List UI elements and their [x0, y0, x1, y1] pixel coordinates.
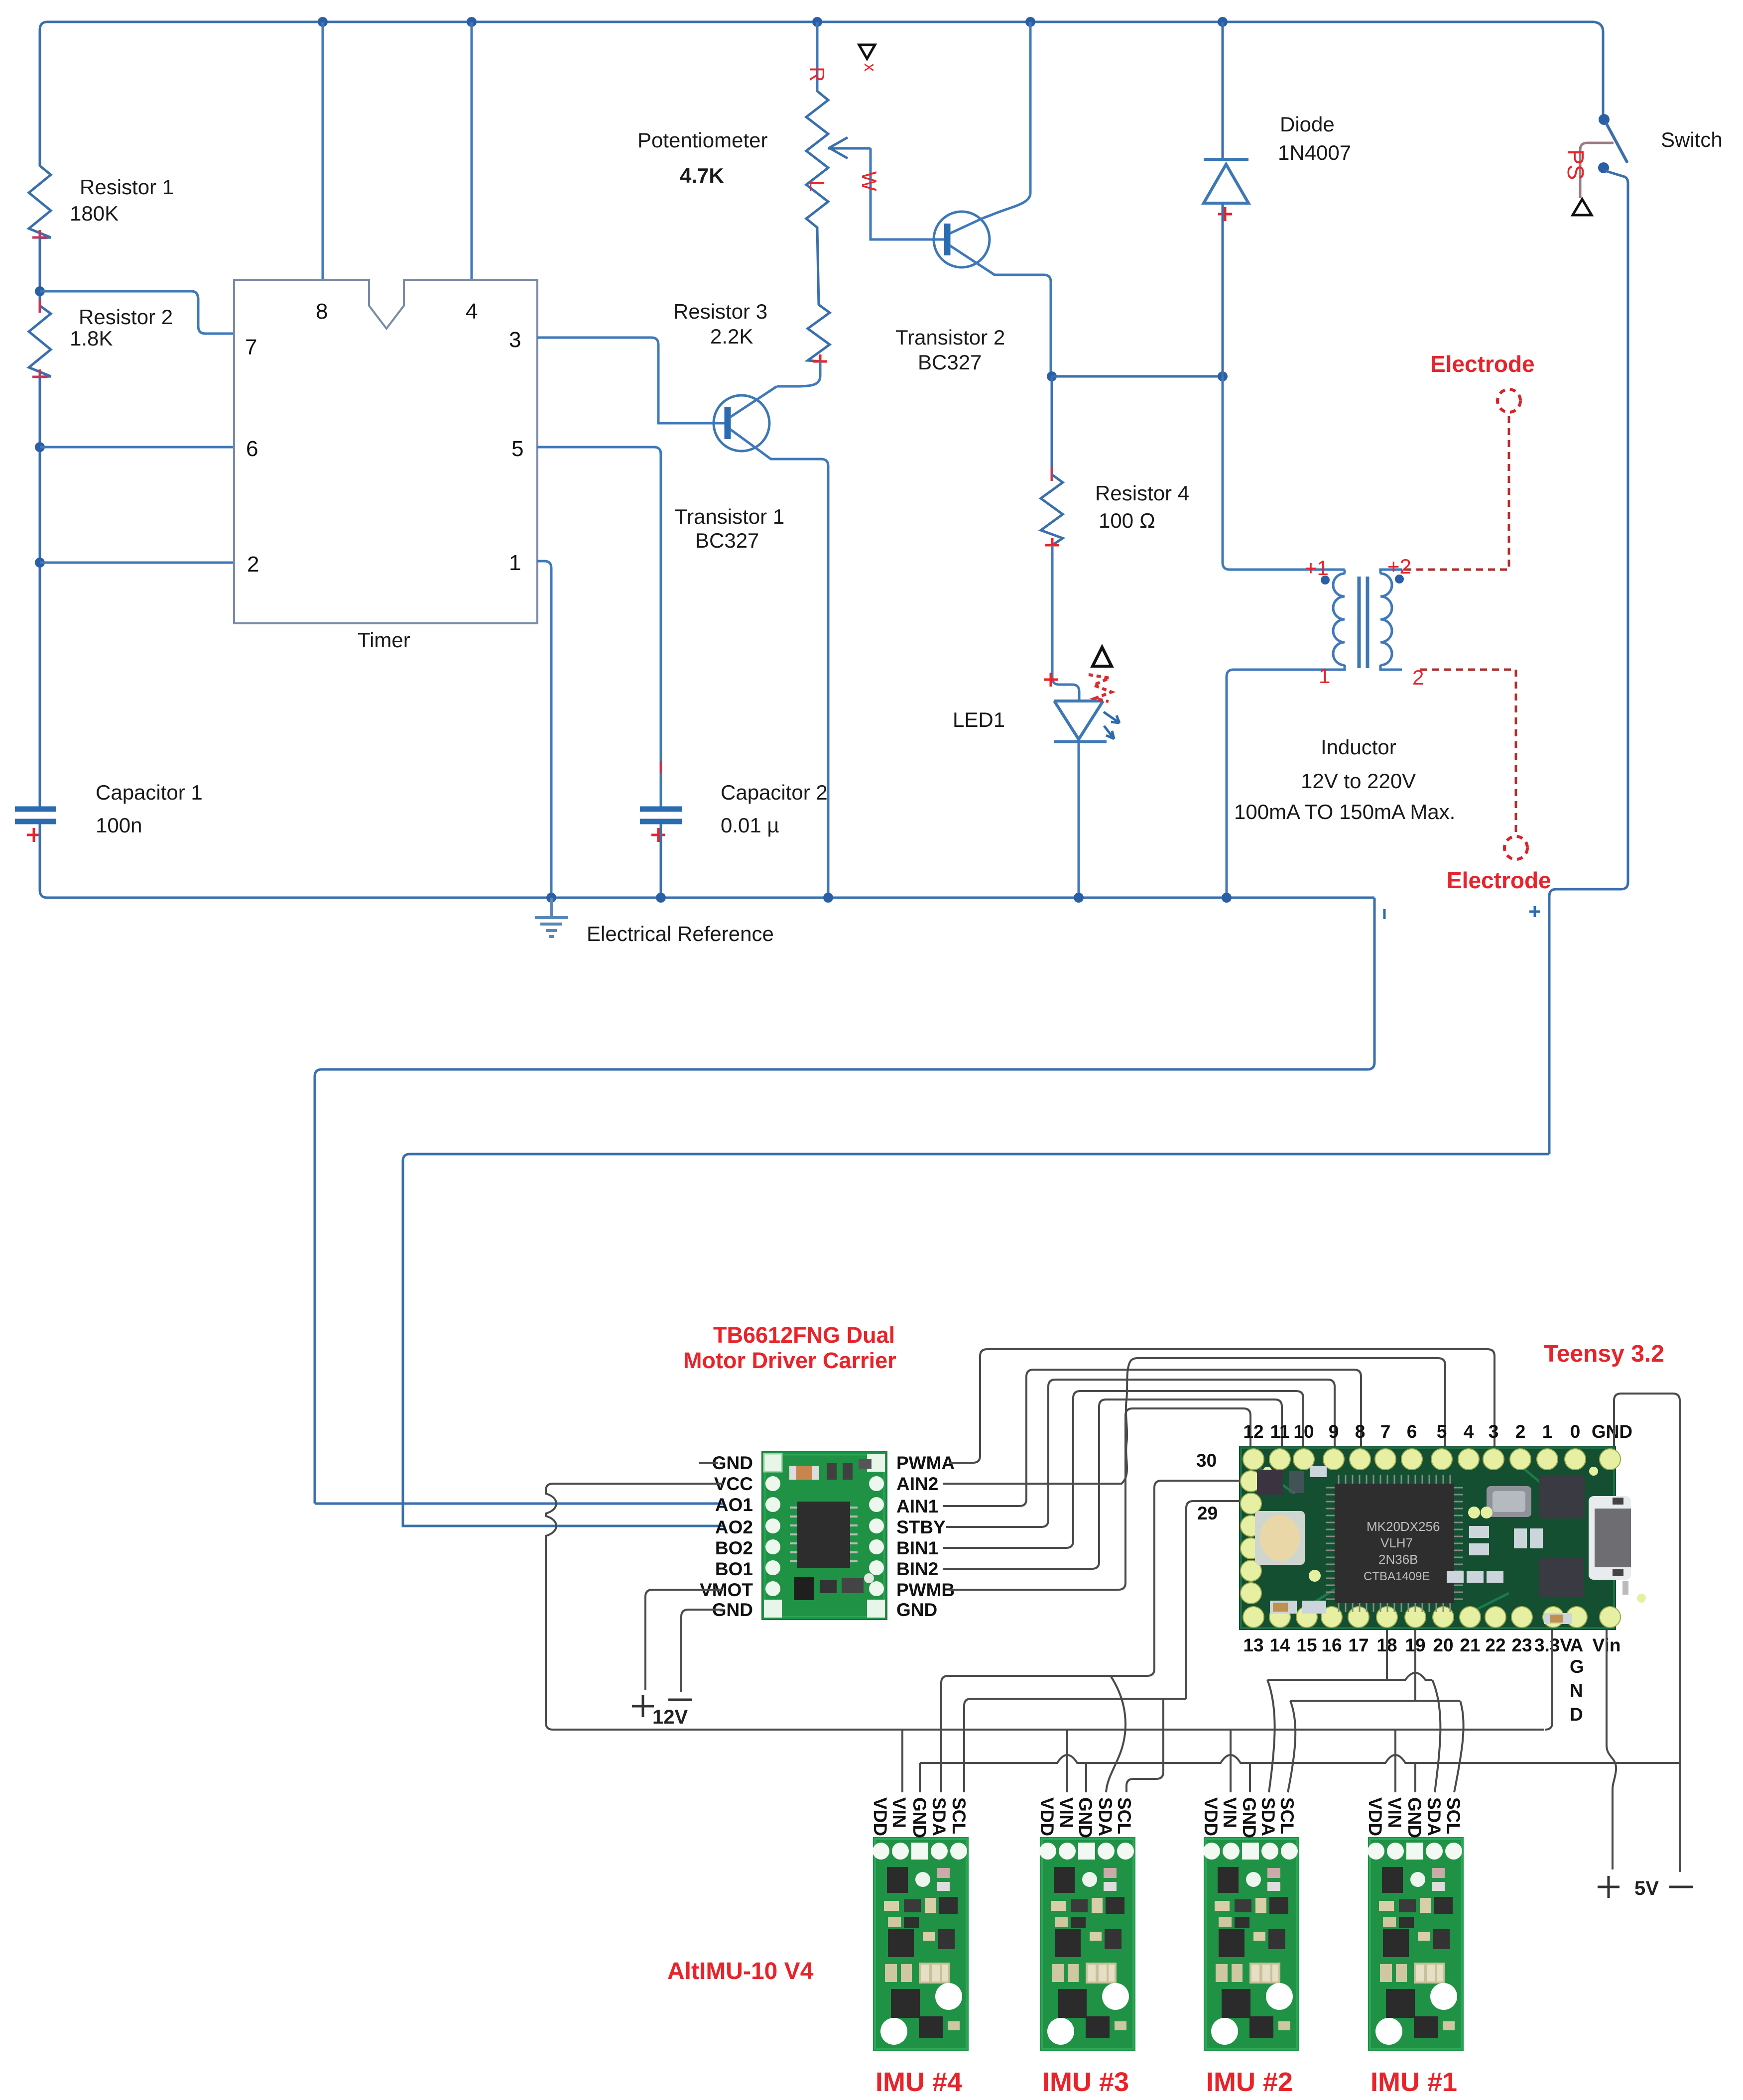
wire GND tap IMU2	[1249, 1763, 1251, 1792]
wire pin29 to SCL line (IMU 3-4)	[964, 1501, 1240, 1792]
svg-text:AltIMU-10 V4: AltIMU-10 V4	[667, 1958, 814, 1984]
svg-text:AIN1: AIN1	[896, 1496, 938, 1517]
transistor Q1 base bar	[725, 407, 731, 439]
wire teensy 3.3V to VIN line	[1545, 1630, 1552, 1730]
wire bottom rail	[40, 890, 1374, 898]
svg-text:D: D	[1570, 1704, 1583, 1725]
svg-text:SDA: SDA	[1424, 1797, 1444, 1836]
wire SDA tap to IMU3	[1106, 1676, 1125, 1792]
transistor Q1 emitter line	[730, 386, 777, 417]
svg-text:2: 2	[1412, 666, 1424, 689]
resistor R2 1.8K zigzag	[29, 306, 51, 377]
svg-text:AIN2: AIN2	[896, 1474, 938, 1494]
wire BIN2 to teensy pin11	[943, 1400, 1282, 1569]
svg-text:8: 8	[316, 299, 328, 324]
svg-text:17: 17	[1348, 1635, 1369, 1655]
wire diode vertical bottom	[1222, 203, 1224, 376]
node diode plus	[1218, 207, 1232, 221]
svg-text:N: N	[1570, 1680, 1583, 1701]
svg-text:VDD: VDD	[1365, 1797, 1385, 1836]
svg-text:L: L	[805, 180, 829, 192]
svg-text:STBY: STBY	[896, 1517, 946, 1537]
resistor R4 100ohm zigzag	[1041, 474, 1063, 545]
wire left vertical (supply to R1)	[40, 22, 47, 166]
capacitor C2 plates	[640, 809, 682, 821]
svg-text:IMU #3: IMU #3	[1042, 2067, 1129, 2097]
node transformer terminal +1	[1321, 576, 1330, 584]
svg-text:Motor Driver Carrier: Motor Driver Carrier	[683, 1348, 896, 1373]
wire AIN2 to teensy pin5	[943, 1358, 1445, 1484]
svg-text:2: 2	[247, 552, 259, 577]
label teensy top pins	[1243, 1421, 1632, 1442]
svg-text:SCL: SCL	[1443, 1797, 1464, 1834]
wire top rail right corner down to switch	[1594, 22, 1603, 115]
Teensy left pad column	[1241, 1471, 1261, 1604]
label TB6612 left pins	[700, 1453, 753, 1620]
IMU 3 board	[1039, 1837, 1135, 2051]
svg-text:3: 3	[509, 328, 521, 352]
svg-text:12V: 12V	[652, 1706, 688, 1728]
svg-text:MK20DX256: MK20DX256	[1367, 1519, 1440, 1534]
svg-text:BO1: BO1	[715, 1559, 753, 1579]
transistor Q2 collector line	[950, 245, 1051, 376]
TB6612 corner pads	[764, 1454, 782, 1472]
svg-text:SDA: SDA	[1258, 1797, 1278, 1836]
wire GND tap IMU3	[1085, 1763, 1087, 1792]
battery 5V minus symbol	[1669, 1886, 1693, 1888]
wire teensy Vin to plus 5V	[1607, 1630, 1616, 1869]
svg-text:0: 0	[1570, 1421, 1581, 1442]
svg-text:PWMB: PWMB	[896, 1580, 955, 1600]
IMU 2 board	[1203, 1837, 1299, 2051]
svg-text:BO2: BO2	[715, 1538, 753, 1558]
potentiometer P1 zigzag	[806, 91, 828, 229]
Teensy 3.2 board U3	[1239, 1446, 1646, 1630]
svg-text:4: 4	[1464, 1421, 1474, 1442]
svg-text:15: 15	[1296, 1635, 1317, 1655]
wire pin 7 connection	[40, 291, 234, 334]
svg-text:1: 1	[509, 551, 521, 575]
wire PWMA to teensy pin3	[949, 1349, 1494, 1463]
resistor R1 180K zigzag	[29, 166, 51, 238]
svg-text:AO1: AO1	[715, 1495, 753, 1515]
svg-text:13: 13	[1243, 1635, 1263, 1655]
svg-text:Transistor 2: Transistor 2	[895, 326, 1005, 349]
IMU 4 board	[872, 1837, 969, 2051]
Teensy passives	[1270, 1466, 1572, 1624]
svg-text:G: G	[1570, 1656, 1584, 1677]
svg-text:BC327: BC327	[918, 350, 982, 374]
svg-text:3.3V: 3.3V	[1534, 1635, 1572, 1655]
wire SCL0 wavy to IMU2	[1288, 1701, 1295, 1792]
svg-text:Timer: Timer	[358, 628, 410, 652]
svg-text:21: 21	[1460, 1635, 1480, 1655]
Teensy pcb traces hint	[1260, 1469, 1554, 1613]
resistor R3 2.2K zigzag	[808, 305, 830, 361]
svg-text:Switch: Switch	[1661, 128, 1723, 151]
wire VCC to VIN distribution	[546, 1484, 1544, 1730]
wire diode vertical top	[1222, 22, 1224, 158]
LED emission arrows	[1104, 712, 1120, 739]
svg-text:11: 11	[1270, 1421, 1289, 1442]
svg-text:VDD: VDD	[1037, 1797, 1057, 1836]
wire LED to bottom rail	[1078, 742, 1080, 898]
node R3 bottom plus	[813, 354, 827, 368]
wire transformer secondary bottom stub	[1380, 665, 1402, 670]
svg-text:BIN2: BIN2	[896, 1559, 938, 1579]
svg-text:23: 23	[1511, 1635, 1532, 1655]
wire GND bottom to 12V minus	[681, 1610, 723, 1692]
svg-text:GND: GND	[1592, 1421, 1632, 1442]
battery 12V minus symbol	[668, 1699, 692, 1701]
svg-text:1N4007: 1N4007	[1278, 141, 1351, 164]
electrode top dashed circle	[1497, 389, 1520, 412]
svg-text:0.01 µ: 0.01 µ	[721, 814, 779, 837]
Teensy reset button	[1255, 1511, 1305, 1565]
Teensy chip bottomright	[1539, 1558, 1584, 1598]
node C2 plus	[651, 828, 665, 842]
wire GND tap IMU4	[919, 1763, 921, 1792]
electrode top dashed connection	[1404, 413, 1509, 570]
svg-text:CTBA1409E: CTBA1409E	[1364, 1570, 1430, 1583]
wire SDA0 wavy to IMU1	[1432, 1680, 1440, 1792]
node junction diode bottom	[1218, 371, 1228, 381]
svg-text:VIN: VIN	[889, 1797, 909, 1828]
svg-text:2.2K: 2.2K	[710, 325, 753, 348]
wire potentiometer top drop	[816, 22, 819, 92]
svg-text:8: 8	[1355, 1421, 1366, 1442]
wire R1 to R2	[39, 238, 41, 306]
node C1 plus	[27, 828, 41, 842]
node LED plus	[1044, 673, 1058, 687]
wire potentiometer to resistor R3	[817, 229, 819, 305]
svg-text:SDA: SDA	[1095, 1797, 1116, 1836]
svg-text:100mA TO 150mA Max.: 100mA TO 150mA Max.	[1234, 800, 1455, 823]
svg-text:30: 30	[1196, 1450, 1217, 1471]
Teensy chip topright	[1539, 1476, 1585, 1518]
resistor R4 100ohm wire top	[1051, 376, 1053, 474]
wire wiper to transistor Q2 base	[871, 148, 944, 239]
Teensy small dot pads	[1263, 1467, 1272, 1476]
node junction Q1 collector rail	[823, 893, 833, 903]
svg-text:SCL: SCL	[1114, 1797, 1134, 1834]
wire R2 down to capacitor C1	[39, 377, 41, 807]
wire VIN tap IMU2	[1230, 1730, 1232, 1792]
wire R3 to Q1 emitter	[777, 361, 820, 386]
timer U1 555 box	[234, 280, 537, 623]
label TB6612 right pins	[896, 1453, 955, 1620]
svg-text:PS: PS	[1563, 149, 1589, 180]
wire pin 6 connection	[40, 446, 234, 449]
Teensy small chip topleft	[1257, 1470, 1283, 1495]
svg-text:+2: +2	[1387, 555, 1411, 578]
svg-text:14: 14	[1269, 1635, 1290, 1655]
svg-text:GND: GND	[909, 1797, 930, 1838]
svg-text:6: 6	[1407, 1421, 1417, 1442]
svg-text:1: 1	[1319, 664, 1330, 688]
LED annotation triangle	[1093, 647, 1112, 666]
capacitor C1 plates	[15, 809, 56, 821]
svg-text:Resistor 4: Resistor 4	[1095, 481, 1189, 505]
wire C2 to bottom rail	[660, 824, 662, 898]
potentiometer wiper arrow	[828, 137, 871, 158]
svg-text:Transistor 1: Transistor 1	[675, 505, 784, 528]
wire teensy GND top to minus 5V	[1614, 1394, 1680, 1872]
ground electrical reference symbol	[535, 898, 568, 936]
TB6612 left pad column	[765, 1476, 780, 1596]
svg-text:100n: 100n	[96, 814, 142, 837]
node junction ground	[546, 893, 556, 903]
svg-text:IMU #2: IMU #2	[1206, 2067, 1293, 2097]
node transformer terminal +2	[1395, 575, 1404, 583]
svg-text:VLH7: VLH7	[1380, 1535, 1413, 1550]
node junction pin7 branch	[35, 286, 45, 296]
wire C1 to bottom rail	[39, 824, 41, 890]
Teensy bottom pad row	[1243, 1607, 1620, 1628]
svg-text:LED1: LED1	[953, 708, 1005, 731]
svg-text:10: 10	[1293, 1421, 1314, 1442]
wire pin 3 connection	[537, 338, 725, 423]
svg-text:4.7K: 4.7K	[680, 164, 724, 187]
svg-text:12V to 220V: 12V to 220V	[1301, 769, 1416, 793]
node junction Q2 collector R4	[1047, 371, 1057, 381]
svg-text:VIN: VIN	[1056, 1797, 1077, 1828]
wire AO2 blue link from switch side	[403, 1154, 1549, 1526]
label IMU3 pins rotated	[1037, 1797, 1134, 1838]
transformer T1 primary coil	[1333, 570, 1345, 665]
Teensy USB connector	[1589, 1496, 1631, 1580]
wire STBY to teensy pin9	[946, 1380, 1335, 1527]
node R1 bottom plus	[32, 230, 47, 245]
svg-text:VDD: VDD	[870, 1797, 890, 1836]
node R2 top red mark	[39, 299, 41, 313]
svg-text:5V: 5V	[1634, 1877, 1659, 1899]
wire SDA0 line pins18	[1267, 1673, 1432, 1680]
Teensy top pad row	[1243, 1449, 1620, 1470]
wire transformer primary bottom to rail	[1227, 665, 1345, 898]
TB6612 small parts top	[827, 1463, 837, 1480]
svg-text:BIN1: BIN1	[896, 1538, 938, 1558]
svg-text:AO2: AO2	[715, 1517, 753, 1537]
diode D1 1N4007	[1204, 159, 1248, 203]
svg-text:BC327: BC327	[695, 529, 759, 552]
node switch throw dot	[1598, 162, 1609, 173]
svg-text:5: 5	[511, 437, 523, 461]
TB6612 right pad column	[869, 1476, 884, 1596]
wire SCL0 line pin19	[1290, 1700, 1460, 1702]
svg-text:Resistor 3: Resistor 3	[673, 300, 767, 323]
wire top supply rail	[47, 21, 1594, 23]
node R4 bottom plus	[1045, 538, 1059, 552]
wire pin 2 connection	[40, 562, 234, 564]
svg-text:6: 6	[246, 437, 258, 461]
wire pin 5 connection	[537, 447, 661, 807]
node junction diode top	[1218, 17, 1228, 27]
svg-text:Teensy 3.2: Teensy 3.2	[1544, 1341, 1664, 1367]
svg-text:Electrical Reference: Electrical Reference	[587, 922, 774, 945]
svg-text:Capacitor 1: Capacitor 1	[96, 781, 203, 804]
node junction pin4 top	[467, 17, 477, 27]
wire diode node down to transformer	[1223, 376, 1345, 570]
label IMU4 pins rotated	[870, 1797, 969, 1838]
switch PS bracket	[1580, 143, 1614, 198]
switch PS triangle	[1573, 199, 1592, 215]
svg-text:2: 2	[1515, 1421, 1526, 1442]
wire Q2 collector to diode node	[1052, 375, 1223, 378]
wire pin 1 connection	[537, 561, 551, 898]
wire Q2 emitter drop	[983, 22, 1030, 218]
svg-text:GND: GND	[1075, 1797, 1096, 1838]
wire R4 to LED	[1052, 545, 1079, 701]
electrode bottom dashed connection	[1420, 670, 1516, 835]
transformer T1 core bars	[1359, 577, 1368, 668]
svg-text:x: x	[861, 63, 879, 72]
transistor Q2 emitter line	[950, 218, 983, 233]
node junction pin6	[35, 442, 45, 452]
node R4 top red mark	[1051, 468, 1053, 481]
wire VIN tap IMU1	[1394, 1730, 1396, 1792]
svg-text:IMU #1: IMU #1	[1370, 2067, 1457, 2097]
svg-text:VIN: VIN	[1384, 1797, 1405, 1828]
wire VIN tap IMU3	[1066, 1730, 1068, 1792]
wire SCL tap to IMU3	[1126, 1699, 1163, 1792]
node switch pole dot	[1599, 114, 1610, 125]
svg-text:12: 12	[1243, 1421, 1263, 1442]
label teensy bottom pins	[1243, 1635, 1620, 1655]
svg-text:180K: 180K	[70, 202, 119, 225]
svg-text:GND: GND	[1404, 1797, 1425, 1838]
svg-text:+1: +1	[1305, 556, 1329, 580]
wire GND top stub	[699, 1462, 718, 1464]
svg-text:7: 7	[245, 335, 257, 359]
svg-text:22: 22	[1485, 1635, 1505, 1655]
wire AO1 blue link horizontal	[315, 1503, 723, 1505]
svg-text:5: 5	[1437, 1421, 1447, 1442]
wire GND distribution line	[920, 1755, 1680, 1763]
Teensy MK20 chip	[1326, 1475, 1463, 1612]
wire switch throw down right side	[1549, 171, 1628, 1154]
svg-text:4: 4	[466, 299, 478, 324]
wire VIN tap IMU4	[901, 1730, 903, 1792]
wire pin 4 drop	[471, 22, 473, 280]
IMU 1 board	[1368, 1837, 1464, 2051]
svg-text:100 Ω: 100 Ω	[1099, 509, 1155, 532]
svg-text:A: A	[1570, 1635, 1584, 1655]
wire teensy pin19 stub	[1414, 1630, 1416, 1701]
transistor Q2 base bar	[944, 224, 951, 255]
svg-text:20: 20	[1433, 1635, 1453, 1655]
svg-text:Potentiometer: Potentiometer	[637, 128, 767, 152]
svg-text:GND: GND	[896, 1600, 937, 1620]
svg-text:9: 9	[1329, 1421, 1339, 1442]
TB6612 bottom parts	[794, 1577, 814, 1600]
transistor Q2 BC327 circle	[934, 212, 990, 267]
wire AIN1 to teensy pin8	[943, 1370, 1361, 1506]
svg-text:7: 7	[1380, 1421, 1391, 1442]
svg-text:Inductor: Inductor	[1321, 735, 1396, 759]
wire PWMB to teensy pin12	[949, 1408, 1250, 1590]
svg-text:Electrode: Electrode	[1447, 867, 1551, 893]
svg-text:SCL: SCL	[949, 1797, 969, 1834]
svg-text:IMU #4: IMU #4	[875, 2067, 962, 2097]
transistor Q1 collector line	[730, 429, 828, 898]
svg-text:2N36B: 2N36B	[1378, 1552, 1418, 1567]
label IMU1 pins rotated	[1365, 1797, 1464, 1838]
TB6612 board U2	[762, 1452, 887, 1620]
node small tick rail 1	[1383, 909, 1386, 919]
node junction C2 rail	[656, 893, 666, 903]
svg-text:Diode: Diode	[1280, 113, 1335, 136]
wire SDA0 wavy to IMU2	[1267, 1680, 1275, 1792]
wire teensy pin18 stub	[1386, 1630, 1388, 1680]
svg-text:VDD: VDD	[1201, 1797, 1221, 1836]
svg-text:Resistor 2: Resistor 2	[79, 305, 173, 329]
svg-text:SDA: SDA	[929, 1797, 949, 1836]
svg-text:GND: GND	[1239, 1797, 1259, 1838]
wire pin 8 drop	[322, 22, 324, 280]
svg-text:SCL: SCL	[1277, 1797, 1297, 1834]
electrode bottom dashed circle	[1504, 836, 1527, 859]
svg-text:29: 29	[1197, 1503, 1218, 1523]
TB6612 chip resistor orange	[789, 1466, 819, 1480]
node small plus rail 2	[1529, 906, 1540, 917]
svg-text:GND: GND	[712, 1453, 753, 1473]
svg-text:Electrode: Electrode	[1430, 351, 1535, 377]
svg-text:1: 1	[1542, 1421, 1553, 1442]
wire SCL0 wavy to IMU1	[1454, 1701, 1464, 1792]
wire VMOT to 12V plus	[645, 1590, 723, 1690]
battery 12V plus symbol	[632, 1695, 654, 1717]
svg-text:3: 3	[1489, 1421, 1499, 1442]
wire pin30 to SDA line (IMU 3-4)	[941, 1481, 1240, 1792]
svg-text:16: 16	[1321, 1635, 1342, 1655]
LED annotation red squiggle	[1089, 675, 1112, 701]
wire bottom rail end corner down (to AO1)	[315, 898, 1374, 1504]
svg-text:PWMA: PWMA	[896, 1453, 955, 1473]
label IMU2 pins rotated	[1201, 1797, 1297, 1838]
switch SW1 blade	[1606, 123, 1627, 163]
node junction pin2	[35, 558, 45, 568]
Teensy oscillator	[1487, 1486, 1531, 1517]
svg-text:W: W	[858, 171, 881, 191]
node C2 top red mark	[660, 761, 662, 773]
node junction transformer rail	[1222, 893, 1232, 903]
node junction LED rail	[1074, 893, 1084, 903]
LED D2 LED1 symbol	[1054, 701, 1107, 742]
svg-text:1.8K: 1.8K	[70, 327, 113, 350]
transformer T1 secondary coil	[1380, 570, 1402, 665]
potentiometer annotation triangle	[859, 45, 875, 59]
svg-text:R: R	[805, 67, 829, 82]
battery 5V plus symbol	[1598, 1876, 1619, 1898]
transistor Q1 BC327 circle	[714, 395, 769, 451]
svg-text:VIN: VIN	[1220, 1797, 1240, 1828]
svg-text:Capacitor 2: Capacitor 2	[721, 781, 828, 804]
wire BIN1 to teensy pin10	[943, 1391, 1303, 1548]
node junction pin8 top	[318, 17, 328, 27]
node junction Q2 emitter top	[1025, 17, 1035, 27]
svg-text:Resistor 1: Resistor 1	[80, 175, 174, 199]
svg-text:TB6612FNG Dual: TB6612FNG Dual	[713, 1322, 895, 1348]
TB6612 driver IC	[797, 1502, 850, 1568]
wire GND tap IMU1	[1414, 1763, 1416, 1792]
node junction potentiometer top	[812, 17, 822, 27]
node R2 bottom plus	[32, 369, 47, 384]
